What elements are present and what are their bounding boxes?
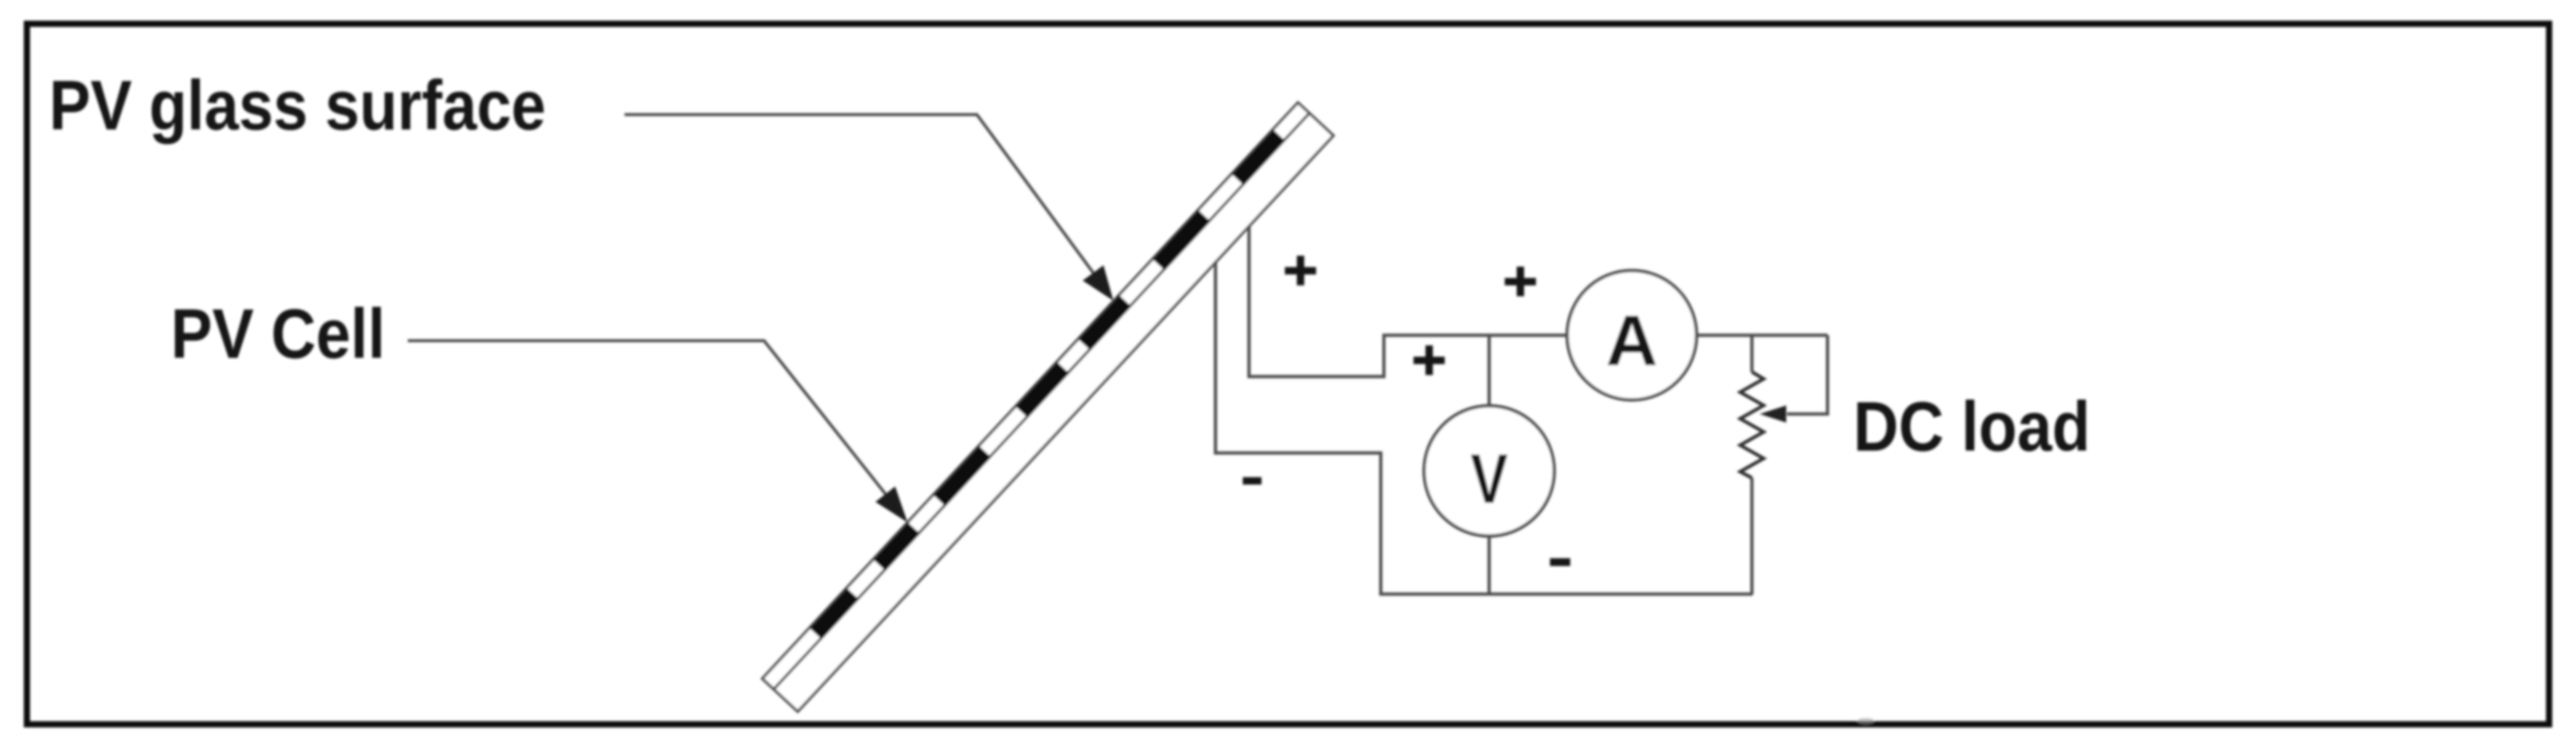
svg-text:PV Cell: PV Cell xyxy=(171,295,385,373)
svg-text:V: V xyxy=(1470,440,1508,518)
svg-text:PV glass surface: PV glass surface xyxy=(49,67,546,145)
svg-text:A: A xyxy=(1606,301,1658,380)
svg-text:DC load: DC load xyxy=(1853,388,2090,466)
